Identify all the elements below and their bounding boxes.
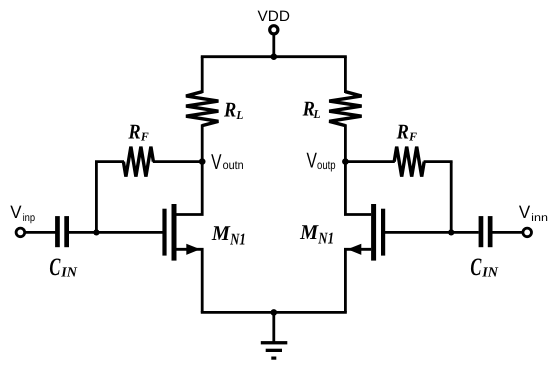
wire left rail to RL1	[201, 57, 204, 93]
svg-text:M: M	[299, 220, 319, 244]
transistor M1 channel bar	[172, 204, 177, 261]
svg-text:L: L	[235, 108, 243, 122]
transistor M1 gate bar	[162, 209, 166, 256]
wire feedback left vertical	[95, 162, 98, 233]
wire RL1 to node Voutn	[201, 124, 204, 161]
transistor M2 channel bar	[371, 204, 376, 261]
junction VDD node dot	[271, 53, 278, 60]
label Voutn	[211, 150, 244, 174]
svg-text:inn: inn	[531, 212, 548, 224]
svg-text:R: R	[223, 98, 236, 122]
label M1	[211, 221, 246, 249]
capacitor CIN2	[479, 216, 493, 247]
ground	[261, 341, 288, 360]
svg-text:R: R	[128, 120, 141, 144]
terminal Vinp	[16, 228, 25, 237]
wire ground stem	[272, 312, 275, 343]
svg-text:M: M	[211, 221, 231, 245]
svg-text:IN: IN	[481, 265, 499, 280]
svg-text:C: C	[470, 254, 481, 281]
power terminal VDD	[270, 26, 278, 34]
wire feedback right vertical	[450, 162, 453, 233]
capacitor CIN1	[55, 216, 69, 247]
svg-text:V: V	[307, 148, 318, 172]
wire top supply rail	[201, 55, 347, 58]
svg-text:IN: IN	[60, 265, 78, 280]
svg-text:F: F	[408, 130, 417, 144]
junction gate M1 node dot	[93, 229, 99, 235]
wire Vinp to CIN1	[25, 231, 56, 234]
label Vinp	[10, 202, 35, 224]
svg-text:VDD: VDD	[258, 8, 291, 25]
label Vinn	[519, 202, 548, 224]
resistor RL1	[186, 92, 218, 126]
wire Vinn to CIN2	[493, 231, 524, 234]
transistor M1 source arrow	[186, 244, 200, 255]
label RF2	[396, 120, 417, 144]
transistor M1 drain lead	[177, 162, 203, 215]
svg-text:N1: N1	[318, 228, 334, 247]
resistor RF1	[95, 147, 202, 177]
node Voutp junction dot	[342, 158, 349, 165]
wire RL2 to node Voutp	[344, 124, 347, 161]
label CIN1	[49, 254, 77, 281]
svg-text:V: V	[10, 202, 21, 222]
wire VDD stem	[272, 35, 275, 56]
wire bottom tail rail	[201, 311, 347, 314]
svg-text:R: R	[396, 120, 409, 144]
svg-text:V: V	[519, 202, 530, 222]
svg-text:outp: outp	[317, 158, 336, 172]
terminal Vinn	[523, 228, 532, 237]
transistor M2 source arrow	[347, 244, 361, 255]
svg-text:F: F	[140, 130, 149, 144]
wire CIN2 to gate of M2	[385, 231, 479, 234]
svg-text:inp: inp	[23, 212, 36, 224]
label RL2	[302, 97, 321, 122]
label RF1	[128, 120, 149, 144]
wire CIN1 to gate of M1	[69, 231, 163, 234]
svg-text:L: L	[313, 107, 321, 121]
svg-text:V: V	[211, 150, 222, 174]
svg-text:outn: outn	[223, 158, 244, 172]
svg-text:N1: N1	[229, 229, 245, 248]
label M2	[299, 220, 334, 248]
transistor M2 drain lead	[345, 162, 371, 215]
transistor M2 source lead	[345, 249, 371, 312]
node Voutn junction dot	[199, 158, 206, 165]
label RL1	[223, 98, 243, 123]
svg-text:C: C	[49, 254, 60, 281]
junction gate M2 node dot	[448, 229, 454, 235]
transistor M1 source lead	[177, 249, 203, 312]
junction tail node dot	[271, 309, 278, 316]
label Voutp	[307, 148, 336, 172]
resistor RF2	[345, 147, 452, 177]
wire right rail to RL2	[344, 57, 347, 93]
resistor RL2	[329, 92, 361, 126]
transistor M2 gate bar	[381, 209, 385, 256]
label CIN2	[470, 254, 498, 281]
